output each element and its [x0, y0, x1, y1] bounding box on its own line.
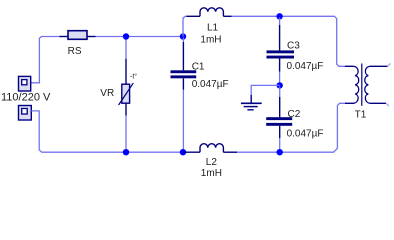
resistor RS body	[68, 31, 87, 40]
capacitor C1 plates	[171, 70, 197, 78]
capacitor C1 top lead	[182, 42, 184, 70]
terminal 110/220V top	[19, 76, 31, 91]
resistor RS left pin	[60, 36, 69, 38]
svg-text:L1: L1	[207, 23, 219, 34]
capacitor C2 bottom lead	[279, 126, 281, 138]
capacitor C2 plates	[266, 117, 292, 126]
inductor L1 left pin	[187, 15, 201, 17]
capacitor C3 plates	[267, 50, 295, 58]
wire RS to C1 top junction	[96, 36, 184, 38]
transformer T1 secondary winding	[365, 66, 370, 103]
wire C1 junction up to L1 level	[183, 16, 187, 36]
wire C2 bottom to bottom rail	[279, 138, 281, 151]
capacitor C1 bottom lead	[182, 78, 184, 90]
svg-text:0.047µF: 0.047µF	[287, 61, 324, 72]
capacitor C3 bottom lead	[279, 59, 281, 72]
svg-text:VR: VR	[100, 88, 114, 99]
svg-text:0.047µF: 0.047µF	[192, 79, 229, 90]
node junction bottom rail / VR	[123, 149, 129, 155]
svg-text:1mH: 1mH	[201, 168, 222, 179]
svg-text:0.047µF: 0.047µF	[287, 128, 324, 139]
wire bottom rail left segment	[125, 151, 183, 153]
transformer T1 primary winding	[354, 66, 359, 103]
varistor VR bottom pin	[125, 103, 127, 115]
svg-text:C1: C1	[192, 62, 205, 73]
varistor VR diagonal	[119, 83, 134, 105]
svg-text:C2: C2	[288, 109, 301, 120]
capacitor C2 top lead	[279, 97, 281, 117]
inductor L1 right pin	[223, 15, 231, 17]
transformer T1 secondary bottom lead	[370, 102, 386, 104]
wire ground branch horizontal	[251, 85, 280, 95]
transformer T1 core	[361, 64, 363, 106]
wire bottom terminal to bottom rail	[31, 111, 125, 152]
transformer T1 secondary top lead	[370, 65, 388, 67]
svg-text:-t°: -t°	[130, 72, 137, 80]
svg-text:110/220 V: 110/220 V	[1, 92, 51, 104]
wire C1 bottom to bottom rail	[182, 90, 184, 151]
node junction top wire / VR	[123, 33, 129, 39]
capacitor C3 top lead	[279, 25, 281, 50]
node junction bottom rail / C2	[277, 149, 283, 155]
wire C1 top pin stub	[182, 38, 184, 43]
terminal 110/220V bottom	[19, 106, 32, 121]
svg-text:1mH: 1mH	[200, 34, 221, 45]
svg-text:L2: L2	[206, 157, 218, 168]
wire C3 bottom to ground junction	[279, 72, 281, 86]
transformer T1 primary bottom lead	[345, 102, 354, 104]
svg-text:RS: RS	[68, 46, 82, 57]
wire C3 top stub	[279, 18, 281, 26]
node junction bottom rail / C1 / L2	[180, 149, 186, 155]
wire stub secondary bottom	[386, 103, 389, 106]
transformer T1 primary top lead	[345, 65, 354, 67]
varistor VR body	[122, 84, 130, 103]
inductor L2 left pin	[183, 151, 200, 153]
wire L2 to bottom-right corner	[237, 103, 345, 152]
ground bars	[241, 103, 262, 110]
wire stub secondary top	[388, 63, 391, 66]
svg-text:T1: T1	[355, 110, 367, 121]
inductor L1 coil	[200, 8, 223, 17]
varistor VR top pin	[125, 59, 127, 84]
resistor RS right pin	[87, 36, 96, 38]
wire VR top branch	[125, 38, 127, 59]
wire L1 to top-right corner	[232, 16, 346, 66]
inductor L2 right pin	[223, 151, 237, 153]
inductor L2 coil	[200, 144, 223, 153]
ground stem	[250, 95, 252, 103]
wire C2 top stub	[279, 87, 281, 97]
wire VR bottom branch	[125, 116, 127, 152]
node junction top wire / C1	[180, 33, 186, 39]
wire top-left from terminal riser to RS	[31, 37, 60, 83]
node junction top-right wire / C3	[276, 13, 282, 19]
svg-text:C3: C3	[287, 40, 300, 51]
node junction C3/C2/ground	[277, 82, 283, 88]
